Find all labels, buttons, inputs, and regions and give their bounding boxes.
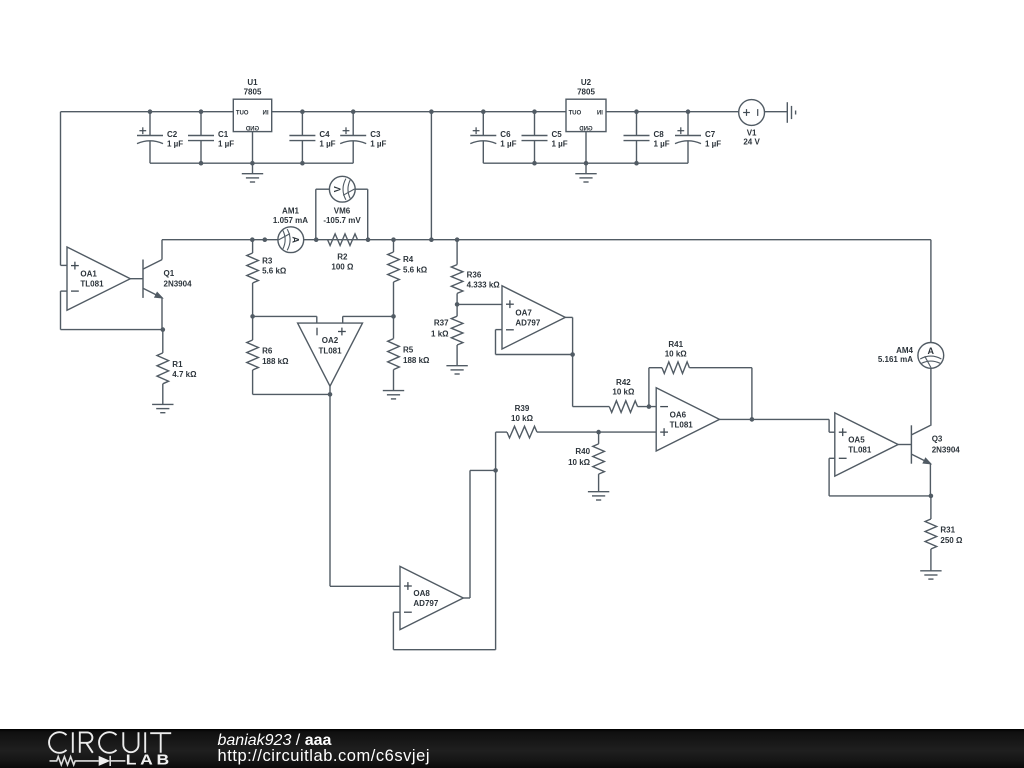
svg-text:U1: U1 — [247, 78, 258, 87]
svg-text:R41: R41 — [668, 340, 683, 349]
svg-text:R36: R36 — [467, 270, 482, 279]
svg-text:C6: C6 — [500, 130, 511, 139]
svg-text:R39: R39 — [515, 404, 530, 413]
svg-text:http://circuitlab.com/c6svjej: http://circuitlab.com/c6svjej — [218, 747, 430, 765]
svg-text:OUT: OUT — [236, 111, 249, 117]
svg-text:C2: C2 — [167, 130, 178, 139]
svg-text:188 kΩ: 188 kΩ — [403, 356, 430, 365]
svg-text:2N3904: 2N3904 — [932, 446, 961, 455]
svg-text:R42: R42 — [616, 378, 631, 387]
svg-text:C5: C5 — [552, 130, 563, 139]
svg-text:AD797: AD797 — [515, 318, 540, 327]
svg-text:GND: GND — [245, 126, 259, 132]
svg-text:OA7: OA7 — [515, 308, 532, 317]
svg-text:GND: GND — [579, 126, 593, 132]
svg-text:Q1: Q1 — [164, 269, 175, 278]
svg-text:4.7 kΩ: 4.7 kΩ — [172, 370, 197, 379]
svg-text:R3: R3 — [262, 256, 273, 265]
svg-text:Q3: Q3 — [932, 435, 943, 444]
svg-text:R6: R6 — [262, 347, 273, 356]
svg-text:10 kΩ: 10 kΩ — [568, 458, 591, 467]
svg-text:C4: C4 — [319, 130, 330, 139]
svg-text:R4: R4 — [403, 255, 414, 264]
svg-text:1 µF: 1 µF — [370, 139, 386, 148]
svg-text:V1: V1 — [747, 128, 757, 137]
svg-text:LAB: LAB — [126, 753, 173, 768]
svg-text:R5: R5 — [403, 346, 414, 355]
svg-text:1 µF: 1 µF — [218, 139, 234, 148]
svg-text:OA8: OA8 — [413, 589, 430, 598]
svg-text:IN: IN — [263, 111, 269, 117]
svg-text:5.6 kΩ: 5.6 kΩ — [262, 267, 287, 276]
svg-text:VM6: VM6 — [334, 206, 351, 215]
svg-text:R40: R40 — [575, 447, 590, 456]
svg-text:A: A — [290, 236, 300, 243]
svg-text:10 kΩ: 10 kΩ — [665, 350, 688, 359]
svg-text:1 µF: 1 µF — [500, 139, 516, 148]
svg-text:1 µF: 1 µF — [654, 139, 670, 148]
svg-text:V: V — [333, 186, 343, 192]
svg-text:TL081: TL081 — [848, 445, 872, 454]
svg-text:TL081: TL081 — [318, 346, 342, 355]
svg-text:2N3904: 2N3904 — [164, 280, 193, 289]
svg-text:TL081: TL081 — [80, 280, 104, 289]
svg-text:1.057 mA: 1.057 mA — [273, 216, 308, 225]
svg-text:AM4: AM4 — [896, 346, 913, 355]
svg-text:OA6: OA6 — [670, 410, 687, 419]
svg-text:R31: R31 — [940, 526, 955, 535]
svg-text:24 V: 24 V — [743, 138, 760, 147]
svg-text:C1: C1 — [218, 130, 229, 139]
svg-text:1 µF: 1 µF — [319, 139, 335, 148]
svg-text:5.6 kΩ: 5.6 kΩ — [403, 266, 428, 275]
svg-text:A: A — [928, 346, 935, 356]
svg-text:5.161 mA: 5.161 mA — [878, 355, 913, 364]
svg-text:7805: 7805 — [577, 88, 595, 97]
svg-text:OA5: OA5 — [848, 436, 865, 445]
svg-text:C3: C3 — [370, 130, 381, 139]
svg-text:IN: IN — [597, 111, 603, 117]
svg-text:7805: 7805 — [244, 88, 262, 97]
svg-text:188 kΩ: 188 kΩ — [262, 357, 289, 366]
svg-text:TL081: TL081 — [670, 420, 694, 429]
svg-text:R1: R1 — [172, 360, 183, 369]
svg-text:1 µF: 1 µF — [552, 139, 568, 148]
svg-text:U2: U2 — [581, 78, 592, 87]
svg-text:-105.7 mV: -105.7 mV — [323, 216, 361, 225]
svg-text:1 µF: 1 µF — [167, 139, 183, 148]
svg-text:1 µF: 1 µF — [705, 139, 721, 148]
svg-text:10 kΩ: 10 kΩ — [511, 414, 534, 423]
svg-text:250 Ω: 250 Ω — [940, 536, 963, 545]
svg-text:AD797: AD797 — [413, 599, 438, 608]
svg-text:C8: C8 — [654, 130, 665, 139]
svg-text:100 Ω: 100 Ω — [331, 263, 354, 272]
svg-text:R37: R37 — [434, 319, 449, 328]
svg-text:OUT: OUT — [568, 111, 581, 117]
svg-text:C7: C7 — [705, 130, 716, 139]
svg-text:4.333 kΩ: 4.333 kΩ — [467, 281, 501, 290]
svg-text:R2: R2 — [337, 252, 348, 261]
svg-text:OA1: OA1 — [80, 270, 97, 279]
svg-text:10 kΩ: 10 kΩ — [612, 388, 635, 397]
svg-text:OA2: OA2 — [322, 336, 339, 345]
svg-text:1 kΩ: 1 kΩ — [431, 330, 449, 339]
svg-text:AM1: AM1 — [282, 206, 299, 215]
